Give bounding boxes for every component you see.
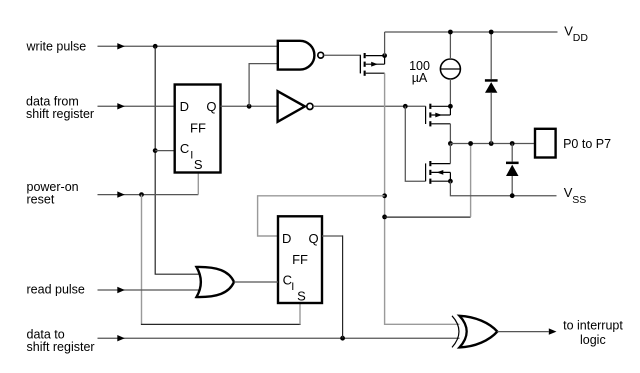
wire Q branch up to NAND input <box>249 64 278 107</box>
junction Q2 drain node <box>448 104 453 109</box>
svg-text:D: D <box>282 231 291 246</box>
svg-text:FF: FF <box>190 120 206 135</box>
wire Q3 source to VSS rail <box>450 181 556 196</box>
svg-text:I: I <box>190 150 193 162</box>
or gate U3 <box>197 267 235 297</box>
svg-text:P0 to P7: P0 to P7 <box>563 137 611 151</box>
wire FF2 D feed <box>258 196 385 236</box>
wire to FF1 C input <box>155 150 175 152</box>
wire VDD rail <box>385 31 558 33</box>
wire FF2 S loop horizontal <box>141 323 301 325</box>
flip-flop FF2 <box>278 216 322 303</box>
junction FF2 Q to data line <box>340 336 345 341</box>
junction power-on branch <box>139 192 144 197</box>
label: VDD <box>564 23 588 44</box>
svg-text:to interrupt: to interrupt <box>563 319 623 333</box>
wire inverter output <box>313 105 426 107</box>
arrowhead to interrupt <box>549 328 557 334</box>
wire link vertical to pad line <box>470 144 472 217</box>
wire read pulse <box>98 289 201 291</box>
wire VDD to current source <box>449 32 451 59</box>
label: VSS <box>564 185 587 206</box>
junction write pulse branch <box>153 44 158 49</box>
arrowhead read pulse <box>117 287 125 293</box>
transistor Q1 pmos <box>360 53 384 76</box>
junction VSS diode D2 <box>510 193 515 198</box>
svg-text:shift register: shift register <box>26 107 94 121</box>
arrowhead power-on reset <box>117 191 125 197</box>
wire OR output to FF2 C <box>234 281 278 283</box>
inverter U2 <box>278 91 313 122</box>
svg-text:SS: SS <box>572 194 586 206</box>
junction pad line left <box>448 141 453 146</box>
junction Q1 source-bulk <box>382 53 387 58</box>
diode D2 to VSS <box>506 144 519 196</box>
wire data from shift register <box>98 105 175 107</box>
svg-text:µA: µA <box>412 71 428 85</box>
flip-flop FF1 <box>175 85 221 173</box>
junction VDD current source <box>448 30 453 35</box>
diode D1 to VDD <box>485 32 498 144</box>
wire power-on branch to FF2 S <box>141 195 143 325</box>
wire XOR output to interrupt <box>497 331 549 333</box>
wire Q1 drain / pad node vertical to XOR <box>385 73 460 324</box>
junction pad link <box>468 141 473 146</box>
xor gate U4 <box>452 316 497 348</box>
label: to interrupt logic <box>563 319 623 347</box>
svg-text:S: S <box>297 289 306 304</box>
wire FF2 S pin vertical <box>299 303 301 324</box>
wire Q1 source to VDD <box>384 32 386 56</box>
junction pad node and FF2 D feed <box>382 193 387 198</box>
junction inverter output branch <box>403 104 408 109</box>
svg-text:Q: Q <box>309 231 319 246</box>
wire pad line <box>450 143 535 145</box>
svg-text:Q: Q <box>206 99 216 114</box>
wire Q3 drain up to pad node <box>449 144 451 164</box>
junction FF1 Q branch <box>247 104 252 109</box>
arrowhead write pulse <box>117 43 125 49</box>
wire write pulse <box>98 45 278 47</box>
wire FF1 S pin drop <box>197 173 199 195</box>
nand gate U1 <box>278 41 324 70</box>
svg-text:shift register: shift register <box>27 340 95 354</box>
pad P0 to P7 <box>535 129 556 158</box>
wire FF2 Q output <box>322 235 343 237</box>
svg-text:reset: reset <box>27 193 55 207</box>
current source I1 100uA <box>440 59 460 79</box>
junction diode D2 pad <box>510 141 515 146</box>
svg-text:S: S <box>194 157 203 172</box>
wire NAND output to PMOS gate <box>324 55 361 73</box>
junction C branch <box>153 148 158 153</box>
wire current source to Q2 drain <box>449 79 451 106</box>
label: 100 uA <box>409 59 430 85</box>
svg-text:write pulse: write pulse <box>26 40 87 54</box>
svg-text:I: I <box>291 281 294 293</box>
wire write branch down to OR input <box>155 46 201 274</box>
svg-text:FF: FF <box>292 252 308 267</box>
junction pad node and link <box>382 215 387 220</box>
svg-text:read pulse: read pulse <box>27 283 85 297</box>
transistor Q3 lower <box>426 161 451 184</box>
junction Q3 source-bulk <box>448 179 453 184</box>
arrowhead data to <box>117 335 125 341</box>
svg-text:logic: logic <box>580 333 606 347</box>
transistor Q2 upper <box>426 104 451 127</box>
wire data to shift register <box>98 337 460 339</box>
junction VDD diode D1 <box>489 30 494 35</box>
wire power-on reset <box>98 194 199 196</box>
junction diode D1 pad <box>489 141 494 146</box>
wire gate feed to lower NMOS <box>405 106 425 181</box>
svg-text:DD: DD <box>573 32 589 44</box>
arrowhead data from <box>117 103 125 109</box>
svg-text:D: D <box>180 99 189 114</box>
svg-text:C: C <box>180 141 189 156</box>
wire Q2 source to pad node <box>449 124 451 144</box>
wire FF2 Q vertical <box>342 235 344 338</box>
wire pad link down from pad line <box>385 216 471 218</box>
wire FF1 Q output <box>221 105 278 107</box>
